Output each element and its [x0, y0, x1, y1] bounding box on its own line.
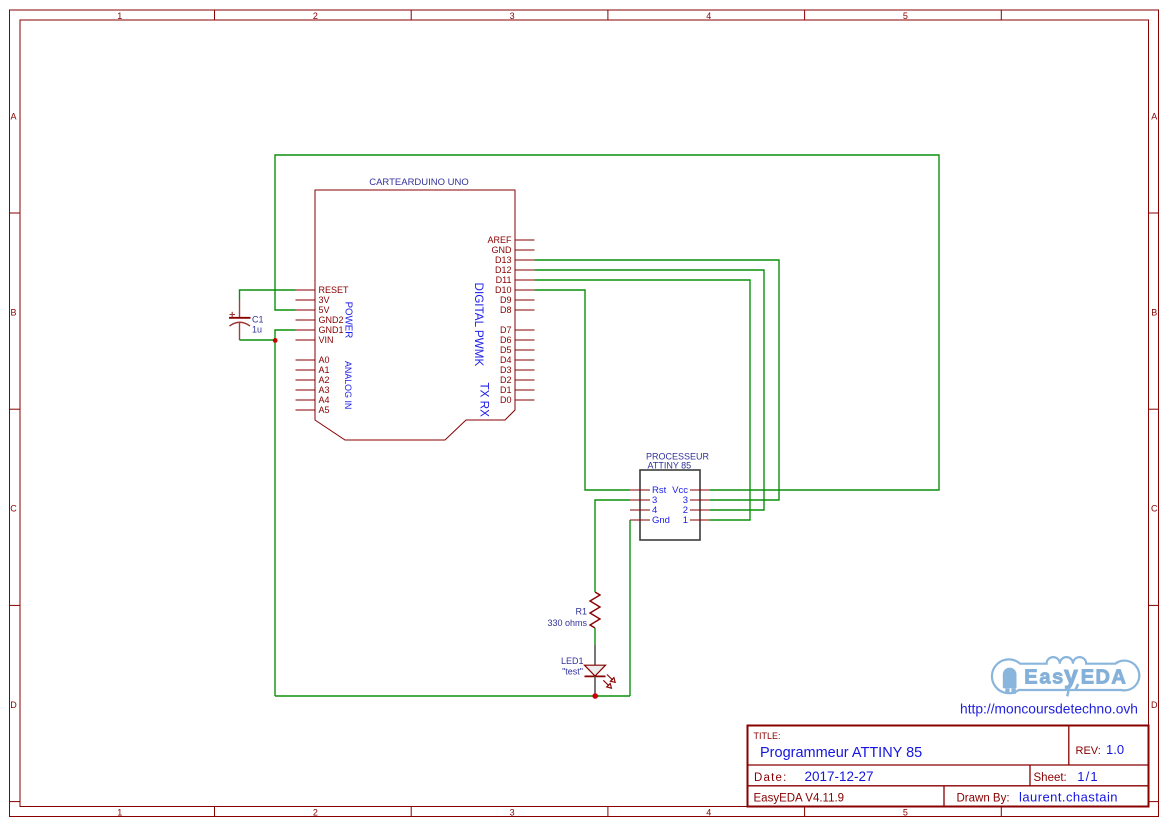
svg-text:5V: 5V [319, 305, 330, 315]
svg-text:D11: D11 [496, 275, 512, 285]
svg-text:C: C [10, 504, 17, 514]
svg-text:2: 2 [313, 807, 318, 817]
svg-text:DIGITAL PWMK: DIGITAL PWMK [472, 283, 485, 367]
wire ATTINY Gnd [629, 520, 631, 696]
svg-text:5: 5 [903, 807, 908, 817]
C1 plus sign [230, 314, 236, 316]
wire GND1 down [275, 330, 296, 340]
C1 negative plate arc [230, 322, 251, 326]
svg-text:A4: A4 [319, 395, 330, 405]
wire ground bottom [275, 695, 630, 697]
wire D11 to ATTINY pin1 [535, 280, 751, 520]
wire D13 to ATTINY pin3 [535, 260, 780, 500]
svg-text:EasyEDA V4.11.9: EasyEDA V4.11.9 [754, 793, 845, 805]
svg-text:Eas: Eas [1024, 667, 1065, 689]
svg-text:2: 2 [313, 11, 318, 21]
U1 outline [315, 190, 515, 440]
svg-text:D12: D12 [495, 265, 512, 275]
svg-text:D1: D1 [500, 385, 512, 395]
svg-text:EDA: EDA [1081, 667, 1127, 689]
svg-text:CARTEARDUINO UNO: CARTEARDUINO UNO [369, 177, 469, 188]
U2 pin names left [652, 485, 670, 526]
svg-text:D6: D6 [500, 335, 512, 345]
svg-text:D: D [10, 700, 17, 710]
U2 outline [640, 470, 700, 540]
svg-text:D2: D2 [500, 375, 512, 385]
svg-text:A3: A3 [319, 385, 330, 395]
svg-text:REV:: REV: [1076, 745, 1101, 757]
svg-text:B: B [10, 307, 16, 317]
LED LED1 [561, 645, 615, 695]
svg-text:D4: D4 [500, 355, 512, 365]
capacitor C1 [229, 301, 264, 341]
LED1 triangle [585, 665, 606, 676]
LED1 anode lead [594, 645, 596, 665]
svg-text:D13: D13 [495, 255, 512, 265]
svg-text:POWER: POWER [342, 302, 353, 339]
wire ground vertical [274, 340, 276, 696]
svg-text:y: y [1064, 662, 1078, 690]
svg-text:A: A [1151, 111, 1157, 121]
svg-text:D5: D5 [500, 345, 512, 355]
svg-text:laurent.chastain: laurent.chastain [1019, 790, 1118, 805]
svg-text:D10: D10 [495, 285, 512, 295]
svg-text:Date:: Date: [754, 772, 788, 784]
svg-text:330 ohms: 330 ohms [547, 618, 587, 628]
C1 positive plate [229, 317, 251, 319]
svg-text:1: 1 [683, 515, 688, 526]
svg-text:D0: D0 [500, 395, 512, 405]
svg-text:4: 4 [706, 11, 711, 21]
svg-text:D: D [1151, 700, 1158, 710]
svg-text:1/1: 1/1 [1077, 769, 1099, 784]
svg-text:A0: A0 [319, 355, 330, 365]
svg-text:TX RX: TX RX [477, 383, 490, 418]
svg-text:C: C [1151, 504, 1158, 514]
svg-text:A1: A1 [319, 365, 330, 375]
svg-text:TITLE:: TITLE: [754, 731, 781, 741]
U1 pin names left [319, 285, 350, 415]
svg-text:R1: R1 [575, 607, 587, 617]
resistor R1 [547, 592, 600, 628]
wire D12 to ATTINY pin2 [535, 270, 765, 510]
svg-text:4: 4 [706, 807, 711, 817]
svg-text:2017-12-27: 2017-12-27 [805, 769, 874, 784]
component U1 CARTEARDUINO UNO [296, 177, 535, 440]
LED1 cathode lead [594, 677, 596, 696]
svg-text:1: 1 [117, 11, 122, 21]
C1 top lead [239, 301, 241, 318]
svg-text:Programmeur ATTINY 85: Programmeur ATTINY 85 [760, 745, 922, 761]
C1 bottom lead [239, 323, 241, 341]
svg-text:A5: A5 [319, 405, 330, 415]
R1 zigzag body [590, 592, 600, 628]
wire ATTINY pin3 to R1 [595, 500, 630, 592]
LED1 light arrows [607, 675, 613, 681]
svg-text:http://moncoursdetechno.ovh: http://moncoursdetechno.ovh [960, 702, 1138, 717]
svg-text:1u: 1u [252, 325, 262, 335]
wire R1 to LED1 [594, 628, 596, 645]
svg-text:B: B [1151, 307, 1157, 317]
wire D10 to ATTINY Rst [535, 290, 631, 490]
svg-text:1.0: 1.0 [1106, 742, 1124, 757]
junction LED1-GND [592, 693, 598, 699]
svg-text:C1: C1 [252, 315, 264, 325]
svg-text:Drawn By:: Drawn By: [957, 793, 1010, 805]
LED1 cathode bar [585, 675, 606, 677]
junction C1-GND [273, 338, 278, 343]
svg-text:LED1: LED1 [561, 656, 584, 666]
svg-text:A: A [10, 111, 16, 121]
svg-text:1: 1 [117, 807, 122, 817]
svg-text:3: 3 [510, 807, 515, 817]
svg-text:RESET: RESET [319, 285, 350, 295]
svg-text:Gnd: Gnd [652, 515, 670, 526]
U1 pin names right [487, 235, 512, 405]
title block [748, 726, 1149, 807]
EasyEDA logo [992, 657, 1139, 696]
svg-text:GND1: GND1 [319, 325, 344, 335]
svg-text:ATTINY 85: ATTINY 85 [648, 461, 692, 471]
svg-text:ANALOG IN: ANALOG IN [343, 361, 353, 409]
svg-text:VIN: VIN [319, 335, 334, 345]
svg-text:GND: GND [492, 245, 513, 255]
svg-text:D7: D7 [500, 325, 512, 335]
svg-text:5: 5 [903, 11, 908, 21]
svg-text:A2: A2 [319, 375, 330, 385]
svg-text:D9: D9 [500, 295, 512, 305]
svg-text:"test": "test" [562, 667, 583, 677]
wire 5V loop to ATTINY Vcc [275, 155, 939, 490]
svg-text:GND2: GND2 [319, 315, 344, 325]
U1 pin stubs [296, 240, 535, 410]
U2 pin stubs [630, 490, 710, 520]
U2 pin names right [672, 485, 688, 526]
wire C1 bottom [240, 339, 276, 341]
svg-text:D3: D3 [500, 365, 512, 375]
svg-text:AREF: AREF [487, 235, 512, 245]
svg-text:3V: 3V [319, 295, 330, 305]
svg-text:Sheet:: Sheet: [1034, 772, 1067, 784]
wire RESET to C1 [240, 290, 296, 301]
svg-text:3: 3 [510, 11, 515, 21]
svg-text:D8: D8 [500, 305, 512, 315]
component U2 PROCESSEUR ATTINY 85 [630, 452, 710, 541]
